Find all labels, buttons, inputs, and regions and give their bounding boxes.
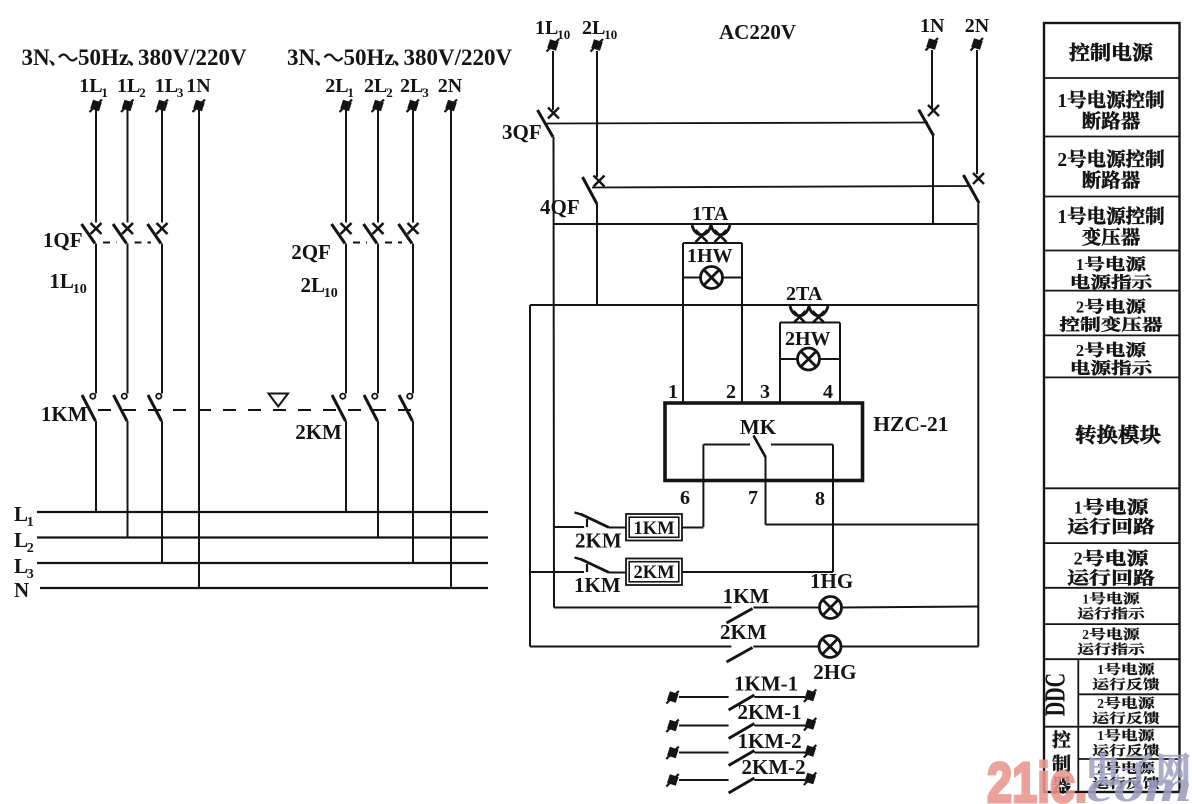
svg-text:1L: 1L [79, 75, 102, 97]
svg-text:2KM: 2KM [575, 529, 622, 553]
svg-text:AC220V: AC220V [719, 20, 796, 44]
svg-text:4: 4 [823, 381, 833, 403]
svg-text:1TA: 1TA [692, 203, 729, 225]
svg-text:2KM-1: 2KM-1 [738, 700, 802, 724]
svg-text:2: 2 [1057, 150, 1067, 171]
svg-text:2KM: 2KM [633, 563, 674, 583]
svg-text:1QF: 1QF [43, 228, 83, 252]
svg-text:10: 10 [324, 286, 338, 301]
svg-text:1: 1 [1057, 207, 1067, 228]
svg-text:1KM-1: 1KM-1 [734, 672, 798, 696]
svg-text:DDC: DDC [1040, 673, 1071, 716]
svg-text:2: 2 [1076, 341, 1084, 360]
svg-text:2L: 2L [582, 17, 605, 39]
svg-text:50Hz: 50Hz [344, 45, 395, 70]
svg-text:380V/220V: 380V/220V [404, 45, 513, 70]
svg-text:4QF: 4QF [540, 195, 580, 219]
svg-text:10: 10 [73, 282, 87, 297]
svg-text:2: 2 [1097, 696, 1104, 711]
svg-text:MK: MK [740, 415, 777, 439]
svg-text:1: 1 [1082, 591, 1089, 606]
svg-text:2KM-2: 2KM-2 [742, 755, 806, 779]
svg-text:2TA: 2TA [786, 283, 823, 305]
svg-text:1: 1 [101, 85, 108, 100]
svg-text:3: 3 [760, 381, 770, 403]
svg-text:3: 3 [177, 85, 184, 100]
svg-text:1L: 1L [155, 75, 178, 97]
svg-text:1N: 1N [186, 75, 211, 97]
svg-text:1L: 1L [49, 269, 74, 293]
svg-text:2: 2 [139, 85, 146, 100]
svg-text:1HG: 1HG [810, 569, 853, 593]
svg-text:380V/220V: 380V/220V [138, 45, 247, 70]
svg-text:3N: 3N [287, 45, 316, 70]
svg-text:1KM: 1KM [574, 573, 621, 597]
svg-text:com: com [1087, 760, 1192, 804]
svg-text:8: 8 [815, 488, 825, 510]
svg-text:2: 2 [1074, 549, 1083, 569]
svg-text:1: 1 [1097, 662, 1104, 677]
svg-text:21ic: 21ic [987, 751, 1075, 804]
svg-text:50Hz: 50Hz [78, 45, 129, 70]
svg-text:2QF: 2QF [291, 240, 331, 264]
svg-text:2L: 2L [400, 75, 423, 97]
svg-text:3QF: 3QF [502, 120, 542, 144]
svg-text:1KM-2: 1KM-2 [738, 729, 802, 753]
svg-text:2HG: 2HG [813, 660, 856, 684]
svg-text:1: 1 [1097, 728, 1104, 743]
svg-text:2: 2 [726, 381, 736, 403]
svg-text:1: 1 [1074, 497, 1083, 517]
svg-text:1N: 1N [920, 15, 945, 37]
svg-text:10: 10 [604, 27, 617, 42]
svg-text:1: 1 [668, 381, 678, 403]
svg-text:2N: 2N [965, 15, 990, 37]
svg-text:1KM: 1KM [723, 584, 770, 608]
svg-text:2L: 2L [325, 75, 348, 97]
svg-text:2: 2 [1082, 627, 1089, 642]
svg-text:1L: 1L [535, 17, 558, 39]
svg-text:1L: 1L [117, 75, 140, 97]
svg-text:2KM: 2KM [295, 420, 342, 444]
svg-text:1: 1 [347, 85, 354, 100]
svg-text:6: 6 [680, 487, 690, 509]
svg-text:2L: 2L [364, 75, 387, 97]
svg-text:HZC-21: HZC-21 [873, 412, 948, 436]
svg-text:N: N [14, 578, 29, 602]
svg-text:1HW: 1HW [687, 245, 733, 267]
svg-text:2: 2 [386, 85, 393, 100]
svg-text:1: 1 [1076, 255, 1084, 274]
svg-text:1: 1 [1057, 91, 1067, 112]
svg-text:3N: 3N [22, 45, 51, 70]
svg-text:2: 2 [1076, 297, 1084, 316]
svg-text:3: 3 [422, 85, 429, 100]
svg-text:7: 7 [748, 487, 758, 509]
svg-text:2N: 2N [438, 75, 463, 97]
svg-text:1KM: 1KM [41, 402, 88, 426]
svg-text:2KM: 2KM [720, 620, 767, 644]
svg-text:1KM: 1KM [633, 519, 674, 539]
svg-text:2L: 2L [301, 273, 326, 297]
